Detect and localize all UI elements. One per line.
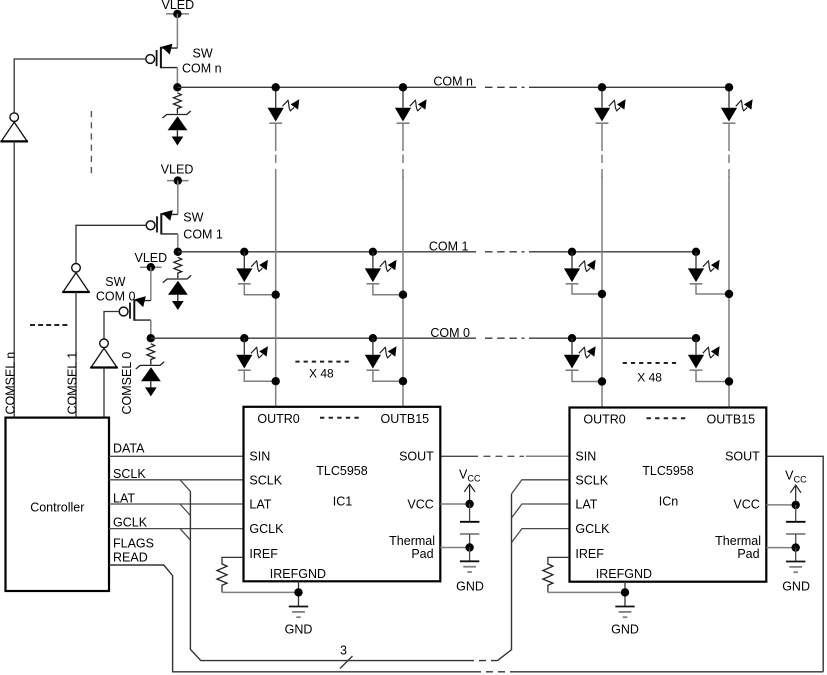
svg-text:SIN: SIN — [249, 450, 270, 464]
svg-text:SOUT: SOUT — [399, 450, 434, 464]
node Thermal Pad (ICn) — [792, 543, 800, 551]
node Thermal Pad (IC1) — [465, 543, 473, 551]
svg-text:OUTB15: OUTB15 — [381, 412, 430, 426]
svg-text:VCC: VCC — [733, 497, 759, 511]
node column 1 / COM 1 LED — [272, 291, 280, 299]
wire DATA to SIN — [109, 455, 244, 457]
node column 2 / COM 0 LED — [399, 377, 407, 385]
node column 1 / COM 0 LED — [272, 377, 280, 385]
wire GCLK to IC1 — [109, 528, 244, 530]
wire bus rise to ICn — [498, 494, 512, 661]
node IREFGND (ICn) — [621, 588, 629, 596]
wire COM n row — [177, 86, 476, 88]
svg-text:Pad: Pad — [737, 547, 759, 561]
node column 2 / COM 1 LED — [399, 291, 407, 299]
capacitor C1 — [460, 504, 479, 548]
wire GCLK to ICn — [512, 529, 570, 543]
wire bus dashed segment — [467, 660, 498, 662]
wire LAT to ICn — [512, 504, 570, 518]
svg-text:COM 0: COM 0 — [96, 289, 136, 303]
inverter COMSEL 0 — [90, 339, 117, 368]
wire D-0d cathode to column 4 — [696, 370, 729, 381]
svg-text:SOUT: SOUT — [725, 450, 760, 464]
LED D-0a — [236, 355, 252, 370]
ellipsis dashed divider between COM n and COM 1 sections — [90, 111, 92, 175]
svg-text:SW: SW — [193, 47, 213, 61]
svg-text:SCLK: SCLK — [575, 474, 608, 488]
svg-text:IREFGND: IREFGND — [270, 567, 326, 581]
LED D-1d — [688, 268, 704, 283]
wire COM 0 row — [151, 337, 476, 339]
svg-text:Thermal: Thermal — [715, 534, 761, 548]
svg-text:SIN: SIN — [575, 450, 596, 464]
wire GCLK bus tap — [180, 529, 190, 540]
node IREFGND (IC1) — [294, 588, 302, 596]
wire gate net COM 0 — [104, 312, 119, 339]
svg-text:LAT: LAT — [575, 497, 597, 511]
wire D-1c cathode to column 3 — [572, 284, 602, 294]
svg-text:X 48: X 48 — [637, 371, 662, 385]
power flag VLED (top) — [162, 0, 195, 18]
node column 3 / COM 0 LED — [598, 377, 606, 385]
wire SW COM n drain — [176, 68, 178, 88]
LED D-n3 — [594, 108, 610, 123]
LED D-0d — [688, 355, 704, 370]
svg-text:SCLK: SCLK — [249, 474, 282, 488]
node column 4 / COM 1 LED — [725, 290, 733, 298]
node VCC (IC1) — [465, 500, 473, 508]
ground GND (ICn cap) — [782, 548, 810, 594]
wire Thermal Pad (IC1) — [440, 547, 469, 549]
svg-text:SCLK: SCLK — [113, 467, 146, 481]
svg-text:ICn: ICn — [659, 495, 679, 509]
svg-text:COMSEL n: COMSEL n — [4, 352, 18, 415]
LED D-1c — [564, 268, 580, 283]
svg-text:COM n: COM n — [433, 75, 473, 89]
LED D-1a — [236, 268, 252, 283]
ellipsis ICn top — [647, 417, 688, 419]
LED D-1b anode — [369, 248, 377, 256]
svg-text:VCC: VCC — [407, 497, 433, 511]
transistor SW COM 1 (PMOS) — [146, 210, 178, 234]
wire D-0b cathode to column 2 — [373, 370, 403, 381]
wire COMSEL 1 to controller — [75, 292, 77, 418]
LED column OUTR0 of IC1 : anode stub — [275, 87, 277, 108]
resistor + zener + arrow on COM n — [162, 93, 190, 146]
svg-text:IREFGND: IREFGND — [596, 567, 652, 581]
transistor SW COM 0 (PMOS) — [119, 296, 151, 320]
power flag VCC (ICn) — [785, 468, 807, 505]
LED D-0c — [564, 355, 580, 370]
svg-text:SW: SW — [183, 211, 203, 225]
svg-text:GND: GND — [782, 580, 810, 594]
svg-text:COM n: COM n — [182, 62, 222, 76]
wire bus vertical (left) — [190, 491, 467, 660]
LED D-1a anode — [240, 248, 248, 256]
label bus width 3 — [340, 644, 353, 669]
op IC1 box — [244, 407, 441, 582]
svg-text:Thermal: Thermal — [389, 534, 435, 548]
wire IREF resistor to IREFGND — [222, 591, 299, 593]
label X 48 (left) — [295, 362, 351, 381]
svg-text:COM 1: COM 1 — [183, 228, 223, 242]
power flag VCC (IC1) — [459, 468, 481, 505]
svg-text:VLED: VLED — [161, 162, 194, 176]
inverter COMSEL 1 — [62, 264, 89, 293]
svg-text:Pad: Pad — [411, 547, 433, 561]
LED D-1c anode — [568, 248, 576, 256]
wire SCLK to ICn — [512, 480, 570, 494]
node COM n / column 1 — [272, 83, 280, 91]
resistor + zener + arrow on COM 0 — [136, 344, 164, 397]
svg-text:GCLK: GCLK — [113, 516, 148, 530]
wire VCC pin (IC1) — [440, 503, 469, 505]
LED D-0b anode — [369, 334, 377, 342]
wire column 4 — [728, 123, 730, 151]
wire IREFGND stub (IC1) — [298, 581, 300, 606]
svg-text:TLC5958: TLC5958 — [316, 464, 367, 478]
svg-text:IREF: IREF — [575, 547, 604, 561]
wire D-0a cathode to column 1 — [244, 370, 275, 381]
svg-text:GND: GND — [611, 623, 639, 637]
wire D-0c cathode to column 3 — [572, 370, 602, 381]
op ICn box — [570, 408, 767, 582]
node COM n / column 4 — [725, 83, 733, 91]
svg-text:GND: GND — [456, 580, 484, 594]
svg-text:IC1: IC1 — [333, 495, 353, 509]
ellipsis IC1 top — [320, 417, 361, 419]
wire gate net COM n — [14, 59, 146, 113]
svg-text:TLC5958: TLC5958 — [642, 464, 693, 478]
wire column 2 — [402, 123, 404, 151]
svg-text:OUTR0: OUTR0 — [583, 412, 625, 426]
LED D-n2 — [395, 108, 411, 123]
svg-text:FLAGS: FLAGS — [113, 536, 154, 550]
svg-text:GCLK: GCLK — [575, 522, 610, 536]
LED D-n4 — [721, 108, 737, 123]
wire COMSEL 0 to controller — [103, 368, 105, 418]
wire IREF resistor to IREFGND (ICn) — [548, 591, 625, 593]
wire SCLK to IC1 — [109, 479, 244, 481]
svg-text:OUTB15: OUTB15 — [707, 412, 756, 426]
wire SOUT IC1 to SIN ICn — [440, 455, 478, 457]
wire COM 1 row — [178, 251, 476, 253]
svg-text:COM 0: COM 0 — [430, 326, 470, 340]
svg-text:GND: GND — [285, 623, 313, 637]
node COM n / column 3 — [598, 83, 606, 91]
svg-text:Controller: Controller — [30, 501, 84, 515]
wire VLED to SW COM 0 source — [150, 267, 152, 300]
wire SW COM 0 drain — [150, 320, 152, 338]
node column 3 / COM 1 LED — [598, 290, 606, 298]
LED column OUTB15 of IC1 : anode stub — [402, 87, 404, 108]
svg-text:3: 3 — [340, 644, 347, 658]
controller box — [6, 418, 110, 591]
resistor IREF (ICn) — [548, 557, 570, 562]
LED D-0c anode — [568, 334, 576, 342]
svg-text:COM 1: COM 1 — [429, 240, 469, 254]
wire SW COM 1 drain — [177, 234, 179, 252]
ground GND (IC1 cap) — [456, 548, 484, 594]
resistor + zener + arrow on COM 1 — [163, 257, 191, 310]
svg-text:LAT: LAT — [249, 497, 271, 511]
label X 48 (right) — [623, 363, 679, 385]
ground GND (IC1 IREFGND) — [289, 607, 308, 618]
LED D-1b — [365, 268, 381, 283]
wire gate net COM 1 — [76, 225, 146, 263]
wire LAT to IC1 — [109, 503, 244, 505]
transistor SW COM n (PMOS) — [146, 44, 178, 68]
LED column OUTB15 of ICn : anode stub — [728, 87, 730, 108]
svg-text:X 48: X 48 — [309, 366, 334, 380]
resistor IREF (IC1) — [222, 557, 244, 562]
wire VCC pin (ICn) — [766, 504, 795, 506]
node SW COM 1 drain junction — [174, 248, 182, 256]
LED column OUTR0 of ICn : anode stub — [601, 87, 603, 108]
svg-text:CC: CC — [468, 474, 481, 484]
svg-text:COMSEL 0: COMSEL 0 — [120, 352, 134, 415]
inverter COMSEL n — [1, 113, 28, 142]
svg-text:READ: READ — [113, 550, 148, 564]
svg-text:OUTR0: OUTR0 — [257, 412, 299, 426]
svg-text:VLED: VLED — [135, 251, 168, 265]
wire VLED to SW COM 1 source — [177, 181, 179, 215]
svg-text:DATA: DATA — [113, 441, 145, 455]
node column 4 / COM 0 LED — [725, 377, 733, 385]
wire D-1a cathode to column 1 — [244, 284, 275, 295]
wire column 1 upper — [275, 123, 277, 151]
LED D-0d anode — [692, 334, 700, 342]
LED D-n1 — [268, 108, 284, 123]
wire FLAGS READ — [109, 565, 474, 672]
wire column 3 — [601, 123, 603, 151]
wire LAT bus tap — [180, 504, 190, 516]
LED D-0b — [365, 355, 381, 370]
svg-text:CC: CC — [794, 474, 807, 484]
svg-text:GCLK: GCLK — [249, 522, 284, 536]
wire COMSEL n to controller — [13, 141, 15, 417]
wire SCLK bus tap — [180, 480, 190, 492]
node COM n / column 2 — [399, 83, 407, 91]
power flag VLED (COM 0) — [135, 251, 168, 272]
ground GND (ICn IREFGND) — [615, 607, 634, 618]
capacitor Cn — [786, 505, 805, 548]
node SW COM n drain junction — [173, 83, 181, 91]
node SW COM 0 drain junction — [147, 334, 155, 342]
svg-text:COMSEL 1: COMSEL 1 — [65, 352, 79, 415]
ellipsis dots between COMSEL n and COMSEL 1 — [30, 324, 70, 326]
node VCC (ICn) — [792, 501, 800, 509]
wire D-1b cathode to column 2 — [373, 284, 403, 295]
LED D-1d anode — [692, 248, 700, 256]
svg-text:IREF: IREF — [249, 547, 278, 561]
wire D-1d cathode to column 4 — [696, 284, 729, 294]
power flag VLED (COM 1) — [161, 162, 194, 185]
svg-text:LAT: LAT — [113, 491, 135, 505]
svg-text:SW: SW — [105, 275, 125, 289]
wire VLED to SW COM n source — [176, 14, 178, 48]
LED D-0a anode — [240, 334, 248, 342]
wire Thermal Pad (ICn) — [766, 547, 795, 549]
wire SOUT return (right edge) — [766, 456, 823, 672]
wire IREFGND stub (ICn) — [624, 582, 626, 607]
